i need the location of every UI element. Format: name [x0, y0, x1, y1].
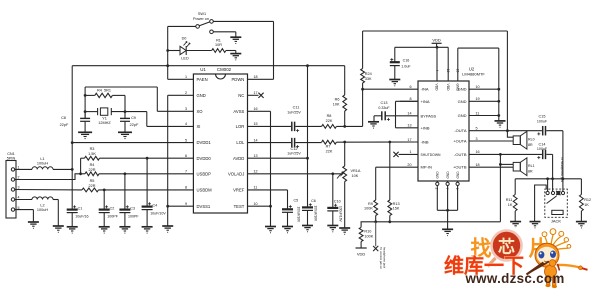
svg-text:R12: R12 [584, 198, 591, 202]
svg-text:19: 19 [476, 97, 480, 101]
svg-text:4: 4 [185, 122, 187, 126]
svg-text:-OUTB: -OUTB [454, 152, 467, 157]
svg-text:GND: GND [456, 171, 460, 179]
svg-text:20: 20 [407, 163, 411, 167]
svg-text:15: 15 [254, 122, 258, 126]
svg-text:www.dzsc.com: www.dzsc.com [464, 271, 564, 286]
svg-text:headphone jack: headphone jack [383, 247, 387, 269]
svg-text:U1: U1 [200, 67, 206, 72]
svg-text:9: 9 [185, 202, 187, 206]
svg-text:R4: R4 [90, 163, 95, 167]
svg-text:VDD: VDD [357, 251, 366, 256]
svg-text:GND: GND [436, 171, 440, 179]
svg-text:22R: 22R [89, 184, 96, 188]
svg-text:PAEN: PAEN [197, 77, 208, 82]
svg-text:0.33uF: 0.33uF [378, 106, 390, 110]
svg-text:R13: R13 [393, 202, 400, 206]
svg-text:1.0uF: 1.0uF [401, 64, 411, 68]
svg-text:R8: R8 [327, 114, 332, 118]
svg-text:2: 2 [435, 188, 439, 190]
svg-text:2: 2 [185, 91, 187, 95]
svg-text:R4 5R1: R4 5R1 [97, 88, 111, 92]
svg-text:3: 3 [185, 107, 187, 111]
svg-text:L1: L1 [40, 157, 44, 161]
svg-text:100uF: 100uF [537, 147, 548, 151]
svg-text:+INB: +INB [421, 125, 430, 130]
svg-text:+OUTB: +OUTB [453, 165, 467, 170]
svg-text:To control jab on: To control jab on [379, 247, 383, 269]
svg-text:-INB: -INB [421, 140, 429, 145]
svg-text:14: 14 [407, 112, 411, 116]
svg-text:16: 16 [254, 107, 258, 111]
svg-text:SHUTDOWN: SHUTDOWN [421, 153, 442, 157]
svg-text:12: 12 [254, 170, 258, 174]
svg-text:9: 9 [455, 188, 459, 190]
svg-text:8: 8 [185, 186, 187, 190]
svg-text:1: 1 [409, 150, 411, 154]
svg-text:RL0: RL0 [528, 138, 535, 142]
svg-text:8R: 8R [528, 170, 533, 174]
svg-text:LED: LED [181, 57, 189, 61]
svg-text:GND: GND [446, 171, 450, 179]
svg-text:RL1: RL1 [528, 164, 535, 168]
svg-text:C12: C12 [291, 147, 298, 151]
svg-text:17: 17 [254, 91, 258, 95]
svg-text:GND: GND [458, 99, 467, 104]
svg-text:DVSS1: DVSS1 [197, 204, 211, 209]
svg-text:3: 3 [476, 137, 478, 141]
svg-text:-OUTA: -OUTA [454, 128, 466, 133]
svg-text:33K: 33K [365, 77, 372, 81]
svg-text:R11: R11 [506, 198, 513, 202]
svg-text:TEST: TEST [234, 204, 245, 209]
svg-text:CM002: CM002 [217, 67, 232, 72]
svg-text:C11: C11 [293, 106, 300, 110]
svg-text:100uF/16V: 100uF/16V [313, 206, 317, 222]
svg-text:JACK: JACK [551, 219, 562, 224]
svg-text:C13: C13 [381, 101, 388, 105]
svg-text:VR1A: VR1A [351, 169, 361, 173]
svg-text:LOR: LOR [236, 124, 245, 129]
svg-text:VREF: VREF [233, 188, 245, 193]
svg-text:C16: C16 [403, 59, 410, 63]
svg-text:GND: GND [458, 113, 467, 118]
svg-text:C15: C15 [539, 115, 546, 119]
svg-text:10: 10 [476, 85, 480, 89]
svg-text:C4: C4 [153, 203, 158, 207]
svg-text:-INA: -INA [421, 87, 429, 92]
svg-text:11: 11 [254, 186, 258, 190]
svg-text:C3: C3 [130, 206, 135, 210]
svg-text:D0: D0 [182, 37, 187, 41]
svg-text:100uF/16V: 100uF/16V [339, 206, 343, 222]
svg-text:17: 17 [407, 138, 411, 142]
svg-text:7: 7 [185, 170, 187, 174]
svg-text:10: 10 [254, 202, 258, 206]
svg-text:13: 13 [407, 124, 411, 128]
svg-text:C14: C14 [539, 142, 546, 146]
svg-text:100K: 100K [364, 207, 373, 211]
svg-text:22R: 22R [89, 168, 96, 172]
svg-text:+OUTA: +OUTA [453, 139, 466, 144]
svg-text:USBDM: USBDM [197, 188, 213, 193]
svg-text:XI: XI [197, 124, 201, 129]
svg-text:12: 12 [446, 69, 450, 73]
svg-text:CN1: CN1 [7, 152, 15, 156]
svg-text:1uF/25V: 1uF/25V [287, 110, 301, 114]
svg-text:7: 7 [445, 188, 449, 190]
svg-text:18: 18 [254, 75, 258, 79]
svg-text:R7: R7 [326, 145, 331, 149]
svg-text:1K: 1K [508, 203, 513, 207]
svg-text:R6: R6 [335, 98, 340, 102]
svg-text:1uF/25V: 1uF/25V [287, 152, 301, 156]
svg-text:22K: 22K [326, 119, 333, 123]
svg-text:SW1: SW1 [198, 12, 206, 16]
svg-text:1: 1 [185, 75, 187, 79]
svg-text:L2: L2 [40, 204, 44, 208]
svg-text:NC: NC [238, 93, 244, 98]
svg-text:100uH: 100uH [37, 161, 48, 165]
svg-text:14: 14 [254, 138, 258, 142]
svg-text:1.5K: 1.5K [88, 152, 96, 156]
svg-text:22pF: 22pF [130, 123, 139, 127]
svg-text:USBDP: USBDP [197, 171, 212, 176]
svg-text:XO: XO [197, 109, 204, 114]
svg-text:AVSS: AVSS [233, 109, 244, 114]
svg-text:DVDD0: DVDD0 [197, 156, 212, 161]
svg-text:6: 6 [409, 85, 411, 89]
svg-text:DVDD1: DVDD1 [197, 140, 212, 145]
svg-text:5: 5 [185, 138, 187, 142]
svg-text:18: 18 [476, 163, 480, 167]
svg-text:VDD: VDD [434, 84, 438, 92]
svg-text:4: 4 [435, 70, 439, 72]
svg-text:10uF/10V: 10uF/10V [150, 211, 166, 215]
svg-text:GND: GND [456, 84, 460, 92]
svg-text:Power on: Power on [193, 17, 209, 21]
svg-text:VDD: VDD [446, 84, 450, 92]
svg-text:13: 13 [254, 154, 258, 158]
svg-text:11: 11 [476, 111, 480, 115]
svg-text:C2: C2 [110, 206, 115, 210]
svg-text:BYPASS: BYPASS [421, 113, 437, 118]
svg-text:8R: 8R [528, 143, 533, 147]
svg-text:AVDD: AVDD [233, 156, 244, 161]
svg-text:16: 16 [476, 150, 480, 154]
svg-text:100uF/16V: 100uF/16V [297, 207, 301, 223]
svg-text:LOL: LOL [236, 140, 245, 145]
svg-text:R3: R3 [90, 147, 95, 151]
svg-text:100uH: 100uH [37, 208, 48, 212]
svg-text:R5: R5 [90, 179, 95, 183]
svg-text:5PIN: 5PIN [7, 157, 16, 161]
svg-text:8: 8 [409, 97, 411, 101]
svg-text:15: 15 [456, 69, 460, 73]
svg-text:C10: C10 [334, 199, 341, 203]
svg-text:Y1: Y1 [102, 117, 107, 121]
svg-text:C1: C1 [78, 206, 83, 210]
svg-text:VDD: VDD [432, 38, 441, 43]
svg-text:VOLADJ: VOLADJ [228, 171, 244, 176]
svg-text:22pF: 22pF [60, 123, 69, 127]
svg-text:R24: R24 [365, 72, 372, 76]
svg-text:100K: 100K [364, 235, 373, 239]
svg-text:R1: R1 [216, 39, 221, 43]
svg-text:10K: 10K [333, 103, 340, 107]
svg-text:GND: GND [197, 93, 206, 98]
svg-text:C5: C5 [293, 199, 298, 203]
svg-text:C9: C9 [131, 116, 136, 120]
svg-text:10uF/16: 10uF/16 [75, 214, 88, 218]
svg-text:C6: C6 [311, 199, 316, 203]
svg-text:1K: 1K [584, 203, 589, 207]
svg-text:100PF: 100PF [128, 214, 139, 218]
svg-text:100uF: 100uF [537, 119, 548, 123]
svg-text:15K: 15K [393, 207, 400, 211]
svg-text:R9: R9 [368, 202, 373, 206]
svg-text:芯: 芯 [498, 237, 515, 257]
svg-text:MP-IN: MP-IN [421, 165, 432, 170]
svg-text:100PF: 100PF [107, 214, 118, 218]
svg-text:22K: 22K [326, 149, 333, 153]
svg-text:5: 5 [476, 127, 478, 131]
svg-text:PDWN: PDWN [232, 77, 245, 82]
svg-text:C8: C8 [61, 116, 66, 120]
svg-text:+INA: +INA [421, 99, 430, 104]
svg-text:10R: 10R [215, 43, 222, 47]
svg-text:LM4880MTF: LM4880MTF [462, 72, 485, 77]
svg-text:12MHZ: 12MHZ [98, 121, 111, 125]
svg-text:R10: R10 [364, 230, 371, 234]
svg-text:10K: 10K [352, 174, 359, 178]
svg-text:6: 6 [185, 154, 187, 158]
